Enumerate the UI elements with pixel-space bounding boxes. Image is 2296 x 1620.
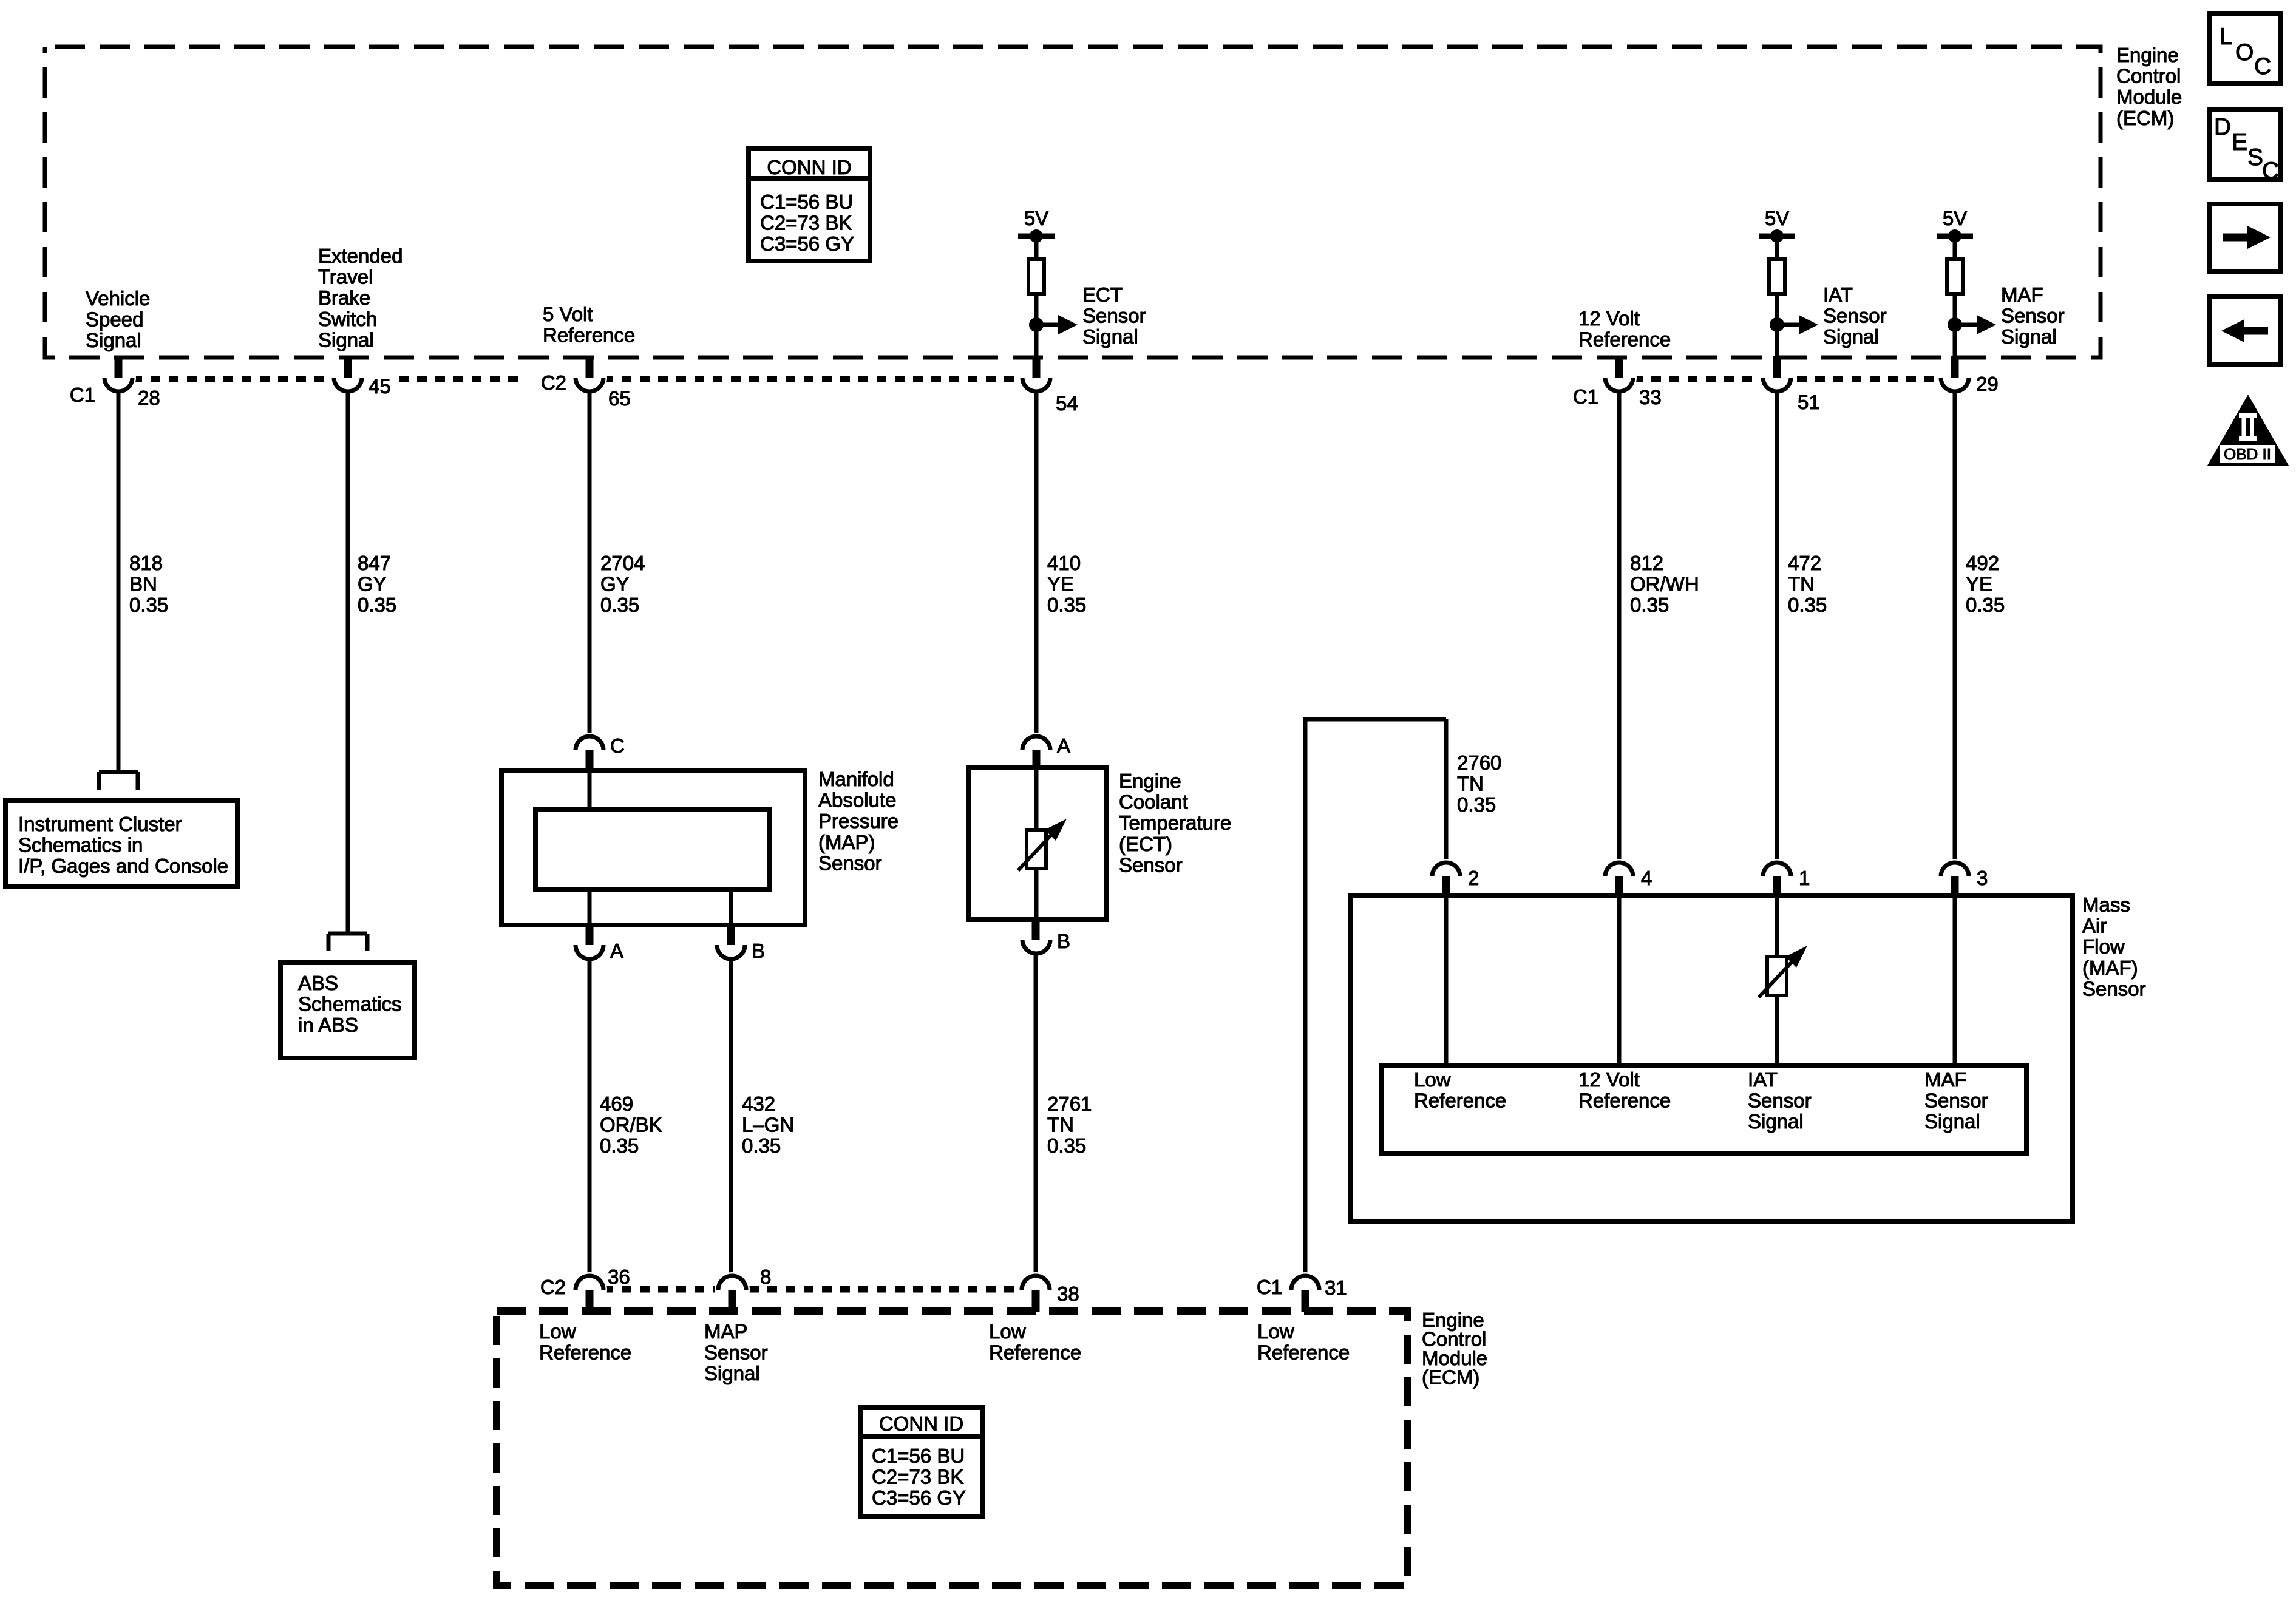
svg-text:(ECT): (ECT) [1119,833,1172,855]
svg-text:Schematics: Schematics [298,993,402,1015]
wire 812 OR/WH (12 volt reference) [1617,391,1622,863]
svg-text:Coolant: Coolant [1119,791,1188,813]
wire 432 L-GN (MAP sensor signal) [729,959,733,1276]
svg-text:YE: YE [1047,573,1074,595]
svg-text:Reference: Reference [1578,1090,1671,1112]
svg-text:Reference: Reference [989,1341,1081,1364]
icon OBD II triangle badge [2207,395,2289,466]
svg-text:(ECM): (ECM) [1422,1366,1479,1389]
svg-text:Reference: Reference [539,1341,631,1364]
svg-text:812: 812 [1630,552,1663,574]
connector pin 54 (ECM top) [1019,360,1054,395]
signal arrow MAF Sensor Signal [1955,323,1978,327]
svg-text:2: 2 [1468,867,1479,889]
svg-text:OBD II: OBD II [2224,445,2271,463]
svg-text:0.35: 0.35 [1788,594,1827,616]
svg-text:1: 1 [1799,867,1810,889]
svg-text:Absolute: Absolute [818,789,896,812]
pull-up resistor (ECT) [1034,237,1039,259]
svg-text:Sensor: Sensor [1748,1090,1812,1112]
svg-text:28: 28 [138,387,160,409]
svg-text:(MAP): (MAP) [818,831,875,853]
svg-text:33: 33 [1639,386,1662,408]
svg-text:Temperature: Temperature [1119,812,1231,834]
MAF sensor outer box [1351,896,2073,1222]
svg-text:Vehicle: Vehicle [86,287,150,310]
MAP sensor outer box [501,770,805,925]
svg-text:Sensor: Sensor [818,852,882,874]
connector pin 2 (MAF sensor) [1428,859,1464,894]
svg-text:L: L [2220,24,2233,50]
svg-text:36: 36 [608,1266,630,1288]
wire 469 OR/BK (low reference) [588,959,592,1276]
svg-text:IAT: IAT [1748,1068,1778,1091]
svg-text:C1: C1 [1257,1276,1282,1298]
svg-text:4: 4 [1641,867,1652,889]
svg-text:BN: BN [129,573,157,595]
wire MAF pin 1 to element (IAT signal) [1775,897,1779,1066]
connector interface dotted line (top run 28-45) [132,376,333,382]
connector pin 65 (ECM top) [572,360,607,395]
svg-text:2704: 2704 [600,552,645,574]
svg-text:IAT: IAT [1823,283,1853,306]
svg-text:Low: Low [1414,1068,1451,1091]
svg-text:MAP: MAP [704,1320,748,1343]
svg-text:Signal: Signal [2001,325,2057,348]
svg-text:MAF: MAF [2001,283,2043,306]
junction dot (ECT) [1029,317,1044,332]
svg-text:51: 51 [1798,391,1820,413]
svg-text:Pressure: Pressure [818,810,898,832]
svg-text:(MAF): (MAF) [2082,957,2138,979]
wire MAF pin 2 to element (low reference) [1444,897,1449,1066]
svg-text:2760: 2760 [1457,751,1501,774]
svg-text:0.35: 0.35 [129,594,168,616]
svg-text:65: 65 [608,387,631,410]
connector interface dotted line (top right run) [1633,376,1941,382]
svg-text:Reference: Reference [1578,328,1671,351]
svg-text:Engine: Engine [1119,770,1181,792]
svg-text:Low: Low [989,1320,1026,1343]
svg-text:38: 38 [1057,1283,1079,1305]
svg-text:469: 469 [600,1093,633,1115]
svg-text:Mass: Mass [2082,893,2130,916]
icon forward arrow button [2210,204,2281,272]
CONN ID table (top) [749,148,870,261]
ECT thermistor element [1027,830,1046,869]
svg-text:Module: Module [2116,86,2182,108]
svg-text:E: E [2232,129,2247,155]
svg-text:C3=56 GY: C3=56 GY [872,1486,966,1509]
svg-text:472: 472 [1788,552,1821,574]
connector pin 51 (ECM top) [1759,360,1795,395]
wire from resistor to pin (ECT) [1034,294,1039,358]
svg-text:C: C [2262,158,2279,184]
svg-text:Sensor: Sensor [1924,1090,1988,1112]
svg-text:Signal: Signal [1823,325,1879,348]
svg-text:C1: C1 [1573,385,1598,408]
svg-text:2761: 2761 [1047,1093,1092,1115]
svg-text:Reference: Reference [1414,1090,1506,1112]
svg-text:Low: Low [1257,1320,1294,1343]
svg-text:Engine: Engine [2116,44,2179,66]
svg-text:TN: TN [1047,1114,1074,1136]
ECM module boundary box (top, dashed) [45,47,2101,358]
svg-text:C2=73 BK: C2=73 BK [872,1466,963,1488]
svg-text:0.35: 0.35 [600,594,639,616]
svg-text:YE: YE [1966,573,1992,595]
wire 492 YE (MAF signal) [1953,391,1957,863]
connector pin B (MAP sensor) [713,927,749,963]
svg-text:O: O [2235,39,2254,66]
svg-text:Sensor: Sensor [1119,853,1183,876]
svg-text:C2: C2 [541,371,566,394]
svg-text:Signal: Signal [704,1362,760,1384]
svg-text:C2=73 BK: C2=73 BK [760,212,852,234]
wire 2761 TN (low reference) [1034,954,1038,1276]
wire 2704 GY (5 volt reference) [588,391,592,736]
connector pin B (ECT sensor) [1019,922,1054,957]
svg-text:TN: TN [1457,773,1484,795]
svg-text:C: C [610,734,625,757]
svg-text:5V: 5V [1765,207,1789,229]
svg-text:818: 818 [129,552,163,574]
svg-text:Air: Air [2082,915,2107,937]
svg-text:C1=56 BU: C1=56 BU [872,1445,965,1467]
svg-text:Schematics in: Schematics in [18,834,143,856]
svg-text:CONN ID: CONN ID [879,1412,963,1435]
svg-text:847: 847 [358,552,391,574]
wire MAP element to pin B [729,889,733,925]
svg-text:45: 45 [369,375,391,398]
svg-text:Signal: Signal [86,329,141,351]
connector interface dotted line (top run 45-C2) [399,376,526,382]
wire from resistor to pin (MAF) [1953,294,1957,358]
svg-text:S: S [2247,144,2263,171]
svg-text:0.35: 0.35 [1047,594,1086,616]
svg-text:0.35: 0.35 [1457,793,1496,816]
connector interface dotted line (top middle run) [603,376,1022,382]
svg-text:GY: GY [600,573,630,595]
svg-text:B: B [1057,930,1070,952]
connector pin 1 (MAF sensor) [1759,859,1795,894]
wire through ECT sensor [1034,768,1039,920]
icon DESC button [2210,110,2281,180]
wire MAP element to pin A [588,889,592,925]
svg-text:Travel: Travel [318,266,373,288]
svg-text:3: 3 [1977,867,1988,889]
svg-text:C: C [2254,53,2271,80]
svg-text:Brake: Brake [318,286,370,309]
svg-text:Control: Control [2116,65,2181,87]
connector pin 29 (ECM top) [1937,360,1972,395]
wire 410 YE (ECT signal) [1034,391,1039,736]
signal arrow IAT Sensor Signal [1777,323,1800,327]
svg-text:0.35: 0.35 [742,1134,781,1157]
svg-text:29: 29 [1976,373,1999,395]
svg-text:Signal: Signal [1082,325,1138,348]
svg-text:0.35: 0.35 [358,594,396,616]
svg-text:0.35: 0.35 [1630,594,1669,616]
svg-text:54: 54 [1056,392,1078,415]
svg-text:OR/BK: OR/BK [600,1114,662,1136]
svg-text:A: A [610,940,623,962]
svg-text:Low: Low [539,1320,576,1343]
svg-text:(ECM): (ECM) [2116,107,2174,129]
svg-text:Reference: Reference [543,324,635,347]
svg-text:Extended: Extended [318,245,402,267]
pull-up resistor (MAF) [1953,237,1957,259]
connector pin A (MAP sensor) [572,927,607,963]
connector pin 3 (MAF sensor) [1937,859,1972,894]
svg-text:5 Volt: 5 Volt [543,303,593,325]
MAF sensor element box [1381,1066,2026,1154]
wire 847 GY (brake switch signal) [346,391,350,932]
wire 818 BN (vehicle speed signal) [117,391,121,770]
svg-text:I/P, Gages and Console: I/P, Gages and Console [18,855,228,877]
connector pin 33 (ECM top) [1601,360,1637,395]
junction dot (IAT) [1770,317,1784,332]
connector pin 31 (ECM bottom) [1288,1272,1323,1307]
connector interface dotted line (bottom, C2 to 38) [603,1286,1022,1293]
signal arrow ECT Sensor Signal [1036,323,1059,327]
svg-text:Signal: Signal [318,328,374,351]
svg-text:0.35: 0.35 [1047,1134,1086,1157]
svg-text:432: 432 [742,1093,775,1115]
svg-text:Sensor: Sensor [704,1341,768,1364]
connector pin 8 (ECM bottom) [715,1272,750,1307]
svg-text:TN: TN [1788,573,1815,595]
connector pin 36 (ECM bottom) [572,1272,607,1307]
wire 472 TN (IAT signal) [1775,391,1779,863]
wire from resistor to pin (IAT) [1775,294,1779,358]
svg-text:5V: 5V [1943,207,1967,229]
off-page connector bracket (brake switch signal) [328,932,367,936]
wire MAF pin 4 to element (12 volt reference) [1617,897,1622,1066]
svg-text:Manifold: Manifold [818,768,894,790]
svg-text:C1=56 BU: C1=56 BU [760,191,853,213]
svg-text:in ABS: in ABS [298,1014,358,1036]
ECM module boundary box (bottom, dashed) [497,1311,1408,1585]
svg-text:A: A [1057,734,1070,757]
connector pin C (MAP sensor) [572,733,607,768]
wire MAF pin 3 to element (MAF signal) [1953,897,1957,1066]
svg-text:12 Volt: 12 Volt [1578,307,1640,330]
icon back arrow button [2210,297,2281,365]
svg-text:Sensor: Sensor [2001,305,2065,327]
svg-text:C3=56 GY: C3=56 GY [760,232,854,255]
svg-text:Sensor: Sensor [1082,305,1146,327]
icon LOC button [2210,13,2281,83]
svg-text:Sensor: Sensor [2082,977,2146,1000]
svg-text:CONN ID: CONN ID [767,156,851,178]
svg-text:Speed: Speed [86,308,143,331]
CONN ID table (bottom) [860,1408,982,1517]
connector pin 45 (ECM top) [330,360,365,395]
svg-text:5V: 5V [1024,207,1048,229]
reference box Instrument Cluster Schematics [5,801,237,887]
svg-text:D: D [2214,114,2231,140]
svg-text:31: 31 [1325,1276,1347,1299]
pull-up resistor (IAT) [1775,237,1779,259]
svg-text:OR/WH: OR/WH [1630,573,1699,595]
svg-text:Instrument Cluster: Instrument Cluster [18,813,182,835]
svg-text:ABS: ABS [298,972,338,994]
svg-text:0.35: 0.35 [1966,594,2005,616]
svg-text:L–GN: L–GN [742,1114,794,1136]
connector pin 4 (MAF sensor) [1601,859,1637,894]
svg-text:492: 492 [1966,552,1999,574]
connector pin 38 (ECM bottom) [1018,1272,1053,1307]
IAT thermistor element (inside MAF sensor) [1767,957,1787,995]
svg-text:ECT: ECT [1082,283,1123,306]
svg-text:GY: GY [358,573,387,595]
connector pin 28 (ECM top) [101,360,136,395]
MAP sensor element box [535,810,770,889]
svg-text:C2: C2 [540,1276,566,1298]
off-page connector bracket (vehicle speed signal) [99,770,138,774]
svg-text:Flow: Flow [2082,935,2125,958]
svg-text:Reference: Reference [1257,1341,1350,1364]
svg-text:Signal: Signal [1748,1110,1804,1133]
connector pin A (ECT sensor) [1019,733,1054,768]
svg-text:Switch: Switch [318,308,377,330]
svg-text:MAF: MAF [1924,1068,1967,1091]
wire into MAP sensor element [588,771,592,810]
junction dot (MAF) [1948,317,1962,332]
svg-text:Signal: Signal [1924,1110,1980,1133]
svg-text:8: 8 [760,1266,771,1288]
svg-text:0.35: 0.35 [600,1134,639,1157]
svg-text:12 Volt: 12 Volt [1578,1068,1640,1091]
ECT sensor box [969,768,1107,920]
svg-text:410: 410 [1047,552,1081,574]
reference box ABS Schematics [280,963,415,1058]
svg-text:Sensor: Sensor [1823,305,1887,327]
svg-text:C1: C1 [70,384,95,406]
svg-text:B: B [752,940,765,962]
wire 2760 TN (low reference, jog) [1303,717,1308,1276]
